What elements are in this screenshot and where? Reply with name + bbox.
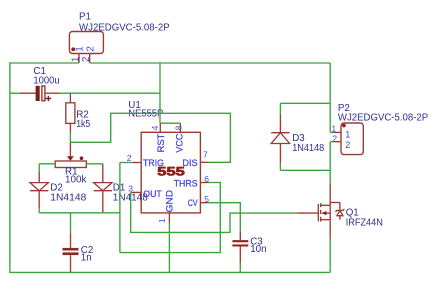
svg-text:555: 555 [157, 165, 185, 179]
svg-text:OUT: OUT [143, 189, 162, 200]
svg-text:10n: 10n [250, 244, 266, 255]
svg-text:1000u: 1000u [33, 75, 59, 86]
svg-text:2: 2 [86, 46, 97, 52]
svg-text:1: 1 [74, 46, 85, 52]
svg-text:1: 1 [345, 130, 350, 140]
svg-text:2: 2 [81, 56, 92, 62]
svg-text:8: 8 [173, 125, 183, 130]
svg-text:4: 4 [150, 125, 160, 130]
svg-text:1: 1 [157, 218, 167, 223]
svg-text:100k: 100k [65, 175, 87, 186]
svg-text:1N4148: 1N4148 [50, 193, 87, 204]
svg-text:WJ2EDGVC-5.08-2P: WJ2EDGVC-5.08-2P [79, 23, 170, 34]
svg-text:VCC: VCC [175, 133, 186, 152]
svg-text:CV: CV [188, 198, 198, 209]
svg-text:IRFZ44N: IRFZ44N [346, 217, 383, 228]
svg-text:1: 1 [70, 56, 81, 62]
svg-text:1n: 1n [81, 253, 92, 264]
svg-text:RST: RST [156, 133, 167, 152]
svg-text:GND: GND [164, 190, 175, 213]
svg-text:1N4148: 1N4148 [292, 143, 325, 154]
svg-text:2: 2 [127, 153, 132, 163]
svg-text:NE555P: NE555P [128, 109, 163, 120]
svg-text:THRS: THRS [174, 178, 198, 189]
svg-text:P1: P1 [79, 11, 91, 22]
svg-text:WJ2EDGVC-5.08-2P: WJ2EDGVC-5.08-2P [338, 112, 429, 123]
svg-text:2: 2 [345, 140, 350, 150]
svg-text:1k5: 1k5 [76, 119, 90, 130]
svg-text:7: 7 [203, 150, 208, 160]
